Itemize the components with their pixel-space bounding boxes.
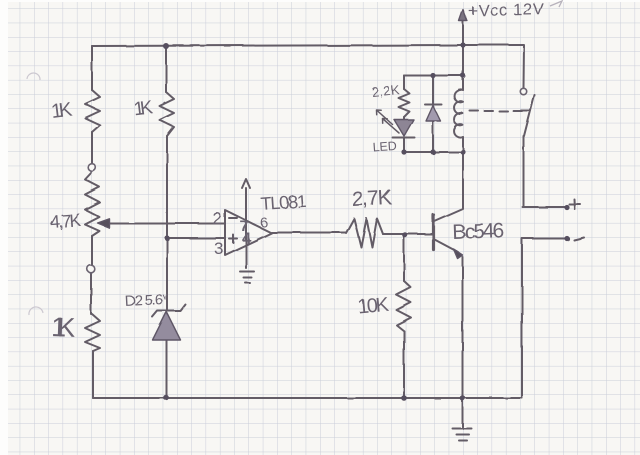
svg-text:2,2K: 2,2K xyxy=(371,82,401,99)
svg-text:3: 3 xyxy=(214,239,223,258)
svg-text:2: 2 xyxy=(213,209,222,228)
svg-text:+Vcc 12V: +Vcc 12V xyxy=(468,1,544,20)
svg-text:LED: LED xyxy=(372,139,397,155)
svg-text:1K: 1K xyxy=(51,312,76,343)
svg-text:10K: 10K xyxy=(357,294,390,319)
svg-text:TL081: TL081 xyxy=(260,191,307,214)
svg-text:1K: 1K xyxy=(133,97,155,120)
svg-text:4,7K: 4,7K xyxy=(49,210,81,232)
svg-text:6: 6 xyxy=(260,214,268,230)
svg-text:D2 5.6: D2 5.6 xyxy=(124,291,163,310)
svg-text:Bc546: Bc546 xyxy=(452,219,505,244)
svg-text:v: v xyxy=(162,291,168,302)
svg-text:1K: 1K xyxy=(50,98,74,122)
svg-text:4: 4 xyxy=(242,231,251,248)
svg-text:2,7K: 2,7K xyxy=(351,186,392,211)
